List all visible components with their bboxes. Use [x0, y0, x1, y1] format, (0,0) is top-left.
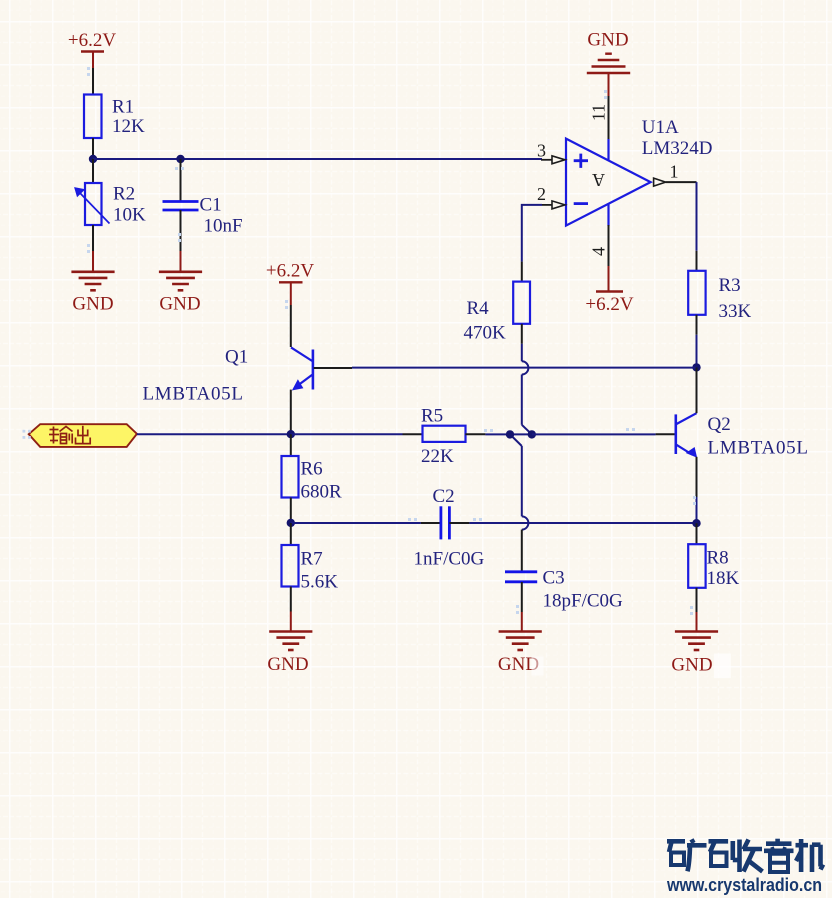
resistor R5 [403, 406, 486, 468]
svg-text:11: 11 [589, 104, 609, 121]
ground GND (under R8) [671, 612, 718, 676]
node dot left [506, 430, 514, 438]
wire pin2 to R4 [522, 205, 542, 262]
transistor Q2 [656, 367, 809, 497]
node B junction [176, 155, 184, 163]
svg-text:+6.2V: +6.2V [266, 261, 314, 282]
op-amp U1A pin 11 [589, 96, 609, 161]
svg-text:4: 4 [589, 247, 609, 256]
svg-text:5.6K: 5.6K [301, 572, 339, 593]
glyph 石 [709, 841, 729, 866]
potentiometer R2 [75, 159, 146, 251]
svg-text:R2: R2 [113, 184, 135, 205]
svg-text:R6: R6 [301, 459, 323, 480]
svg-text:680R: 680R [301, 482, 343, 503]
svg-text:GND: GND [267, 654, 308, 675]
power +6.2V (top-left) [68, 30, 116, 68]
svg-text:Q1: Q1 [225, 347, 248, 368]
glyph 机 [796, 839, 824, 872]
svg-text:22K: 22K [421, 446, 454, 467]
svg-text:18K: 18K [707, 568, 740, 589]
pin 1 output [654, 162, 697, 187]
svg-text:www.crystalradio.cn: www.crystalradio.cn [666, 874, 822, 895]
capacitor C2 [414, 486, 485, 570]
power +6.2V (under op-amp) [585, 266, 633, 315]
svg-text:R4: R4 [467, 298, 490, 319]
wire node to R5 [291, 433, 403, 435]
capacitor C3 [505, 530, 623, 612]
capacitor C1 [163, 159, 243, 251]
pin 3 [537, 141, 565, 164]
resistor R1 [84, 68, 145, 159]
svg-text:R1: R1 [112, 97, 134, 118]
wire C2 to Q2 emitter node [469, 522, 696, 524]
resistor R8 [688, 523, 739, 612]
wire jog into R5 node [522, 425, 532, 435]
wire R5 to node dots [485, 433, 531, 435]
glyph 收 [733, 840, 763, 873]
svg-text:GND: GND [72, 294, 113, 315]
resistor R7 [282, 523, 339, 612]
node dot right [528, 430, 536, 438]
svg-text:C2: C2 [433, 486, 455, 507]
node junction port/Q1/R6 [287, 430, 295, 438]
power +6.2V (above Q1) [266, 261, 314, 306]
ground GND (above op-amp, inverted) [587, 30, 630, 97]
ground GND (under C3) [498, 612, 542, 675]
ground GND (under R7) [267, 612, 312, 676]
svg-text:2: 2 [537, 184, 546, 204]
op-amp U1A [566, 117, 713, 226]
port 输出 [29, 424, 137, 447]
wire base net y367 [352, 367, 697, 369]
glyph 出 [76, 426, 91, 444]
wire R3 to node [696, 335, 698, 368]
svg-text:R3: R3 [719, 275, 741, 296]
wire R4 down with hop over base net [522, 344, 529, 425]
svg-text:U1A: U1A [642, 117, 679, 138]
svg-text:Q2: Q2 [708, 414, 731, 435]
wire node to Q2 base [532, 433, 656, 435]
watermark 矿石收音机 [667, 839, 823, 872]
svg-text:1nF/C0G: 1nF/C0G [414, 549, 485, 570]
svg-text:C3: C3 [543, 568, 565, 589]
svg-text:LMBTA05L: LMBTA05L [708, 438, 809, 459]
svg-text:3: 3 [537, 141, 546, 161]
glyph 矿 [667, 839, 707, 871]
svg-text:R7: R7 [301, 549, 323, 570]
node junction R6/R7/C2 [287, 519, 295, 527]
ground GND (under C1) [159, 251, 202, 315]
resistor R3 [688, 251, 751, 335]
svg-text:R5: R5 [421, 406, 443, 427]
glyph 音 [764, 839, 794, 872]
svg-text:10K: 10K [113, 205, 146, 226]
resistor R4 [464, 262, 531, 344]
svg-text:R8: R8 [707, 548, 729, 569]
svg-text:1: 1 [670, 162, 679, 182]
svg-text:C1: C1 [200, 195, 222, 216]
svg-text:12K: 12K [112, 116, 145, 137]
svg-text:GND: GND [159, 294, 200, 315]
svg-text:LM324D: LM324D [642, 138, 713, 159]
node junction C2/Q2/R8 [692, 519, 700, 527]
resistor R6 [282, 434, 343, 523]
svg-text:GND: GND [587, 30, 628, 51]
node A junction [89, 155, 97, 163]
wire Q2 emitter to node [696, 497, 698, 523]
svg-text:+6.2V: +6.2V [585, 294, 633, 315]
svg-text:+6.2V: +6.2V [68, 30, 116, 51]
wire op-amp out down to R3 [696, 182, 698, 251]
artifact dots [23, 67, 697, 615]
transistor Q1 [143, 305, 353, 434]
pin 2 [537, 184, 565, 209]
svg-text:A: A [592, 170, 605, 190]
ground GND (under R2) [71, 251, 114, 315]
svg-text:33K: 33K [719, 301, 752, 322]
wire down to C2 crossing hop and C3 [522, 446, 529, 530]
svg-text:18pF/C0G: 18pF/C0G [543, 591, 624, 612]
wire port to Q1 emitter node [137, 433, 291, 435]
svg-text:470K: 470K [464, 323, 507, 344]
svg-text:10nF: 10nF [204, 216, 243, 237]
node junction R3/R4/Q1 base [692, 363, 700, 371]
wire main top net [93, 158, 542, 160]
svg-text:GND: GND [671, 655, 712, 676]
white patch artifact [714, 654, 731, 679]
wire node to C2 [291, 522, 421, 524]
op-amp U1A pin 4 [589, 204, 609, 266]
svg-text:LMBTA05L: LMBTA05L [143, 384, 244, 405]
glyph 输 [49, 427, 73, 444]
